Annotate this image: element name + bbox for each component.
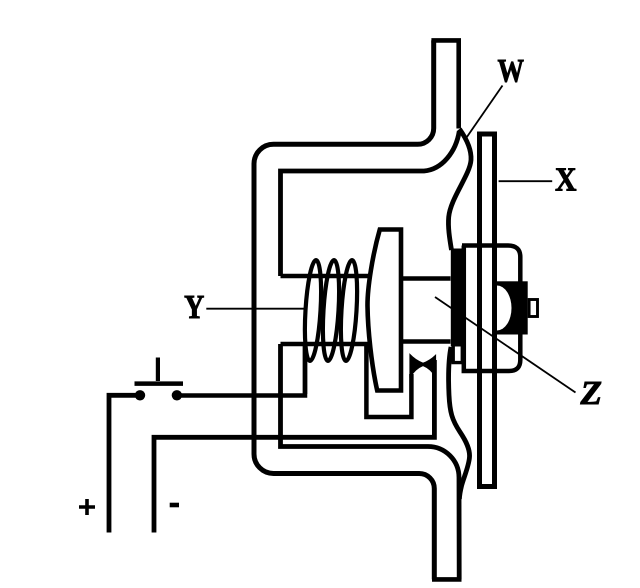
- bow-tie contact left triangle: [410, 354, 423, 377]
- switch terminal dot right: [172, 390, 182, 400]
- switch terminal dot left: [135, 390, 145, 400]
- push button switch stem: [156, 358, 160, 382]
- bottom bar bottom edge: [432, 577, 462, 582]
- coil core top edge: [281, 274, 371, 278]
- insulator block outline: [462, 246, 520, 372]
- coil front flange right edge: [303, 345, 308, 394]
- frame inner window left/bottom line B with elbow arc into bottom bar right edge: [281, 344, 460, 579]
- contact post right line down to wire and wire A to negative lead: [154, 360, 434, 533]
- top bar right edge: [456, 40, 461, 128]
- membrane W lower S-curve from contact bar to bottom elbow: [449, 347, 470, 499]
- top bar top edge: [431, 38, 461, 43]
- label X leader line: [499, 180, 553, 182]
- small rect below contact bar: [453, 346, 462, 363]
- frame outer outline (magnet yoke bracket, top bar left edge, outer C, bottom bar left edge): [254, 40, 434, 579]
- shaft top edge (disc to contact): [401, 276, 451, 280]
- contact bar (black) on membrane: [451, 249, 464, 347]
- membrane W upper S-curve from cusp down to contact bar: [448, 129, 471, 250]
- striker knob black blob: [495, 281, 528, 334]
- striker knob white half-ellipse: [497, 286, 512, 331]
- label Y leader line: [206, 308, 304, 310]
- wire from switch to coil flange: [179, 345, 305, 396]
- push button switch crossbar: [135, 381, 184, 386]
- U-channel bracket under disc: [366, 345, 411, 417]
- minus sign: [170, 503, 179, 508]
- wire from left dot to + lead: [109, 395, 138, 532]
- armature disc: [367, 230, 401, 391]
- bow-tie contact right triangle: [423, 355, 436, 377]
- coil core bottom edge: [281, 342, 373, 346]
- svg-text:W: W: [498, 53, 525, 89]
- frame inner window top line with arc up to cusp: [281, 131, 460, 276]
- svg-text:X: X: [555, 162, 577, 199]
- plus sign: [79, 499, 95, 515]
- svg-text:Y: Y: [184, 289, 204, 326]
- label Z leader line: [435, 297, 576, 393]
- label W leader line: [465, 86, 503, 141]
- coil Y loop 2: [320, 260, 341, 362]
- coil Y loop 3: [338, 260, 359, 362]
- gong plate X: [480, 134, 495, 487]
- svg-text:Z: Z: [579, 375, 602, 412]
- striker nub: [529, 300, 537, 317]
- coil Y loop 1: [302, 260, 323, 362]
- shaft bottom edge (disc to contact): [401, 339, 451, 343]
